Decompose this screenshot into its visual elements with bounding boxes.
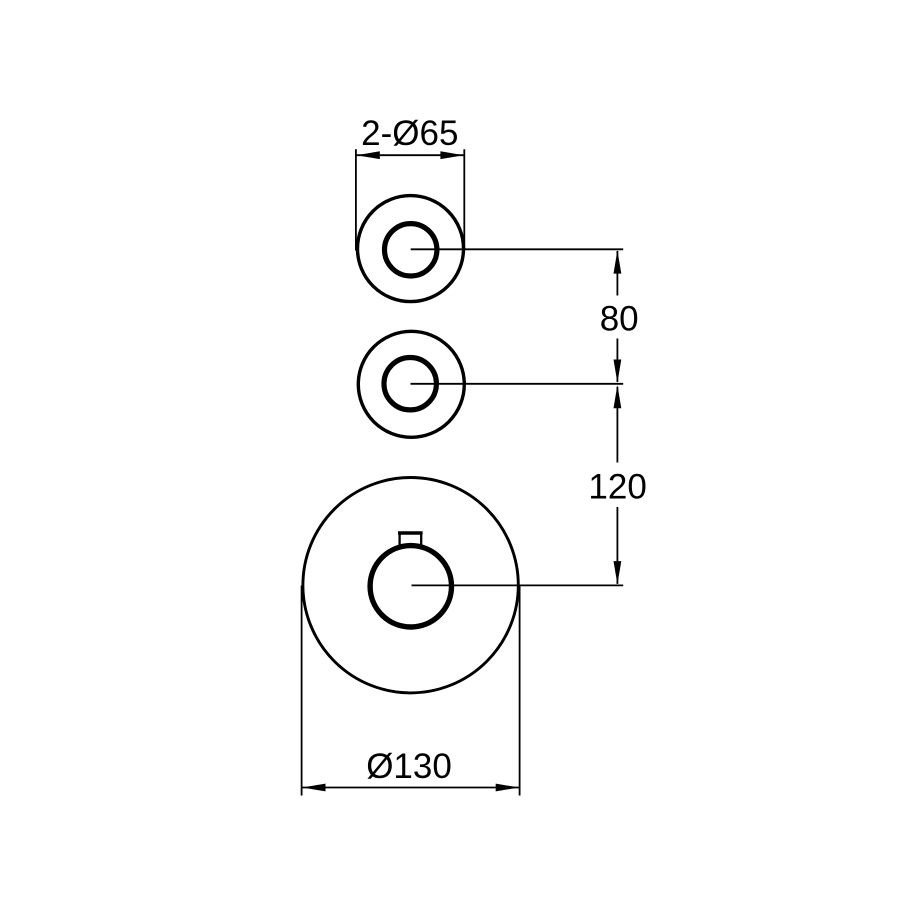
vertical dimension line 120 lower segment — [616, 507, 618, 584]
center line from top outlet — [411, 248, 624, 250]
middle outlet inner circle — [384, 358, 436, 410]
top dimension line — [356, 154, 464, 156]
top dimension extension line left — [355, 149, 357, 250]
top dimension arrow right — [440, 151, 463, 159]
bottom dimension extension line left — [301, 586, 303, 796]
vertical dimension line 80 lower segment — [616, 339, 618, 382]
vertical dimension line 80 upper segment — [616, 251, 618, 296]
arrow up at middle outlet line — [614, 385, 622, 408]
bottom dimension arrow left — [302, 784, 325, 792]
arrow down at middle outlet line — [614, 360, 622, 383]
svg-text:120: 120 — [588, 467, 646, 506]
bottom dimension line — [302, 787, 520, 789]
center line from middle outlet — [411, 383, 624, 385]
arrow down at handle line — [614, 561, 622, 584]
handle circle — [370, 546, 451, 627]
center line from handle — [412, 584, 624, 586]
svg-text:80: 80 — [600, 299, 639, 338]
handle index tab — [398, 533, 423, 546]
top dimension arrow left — [357, 151, 380, 159]
top outlet escutcheon outer circle — [358, 196, 464, 302]
svg-text:Ø130: Ø130 — [366, 747, 452, 786]
bottom dimension extension line right — [519, 586, 521, 796]
large trim plate circle — [303, 478, 518, 693]
top outlet inner circle — [385, 224, 437, 276]
bottom dimension arrow right — [496, 784, 519, 792]
svg-text:2-Ø65: 2-Ø65 — [361, 114, 458, 153]
middle outlet escutcheon outer circle — [358, 331, 464, 437]
top dimension extension line right — [463, 149, 465, 250]
arrow up at top outlet line — [614, 250, 622, 273]
vertical dimension line 120 upper segment — [616, 387, 618, 463]
